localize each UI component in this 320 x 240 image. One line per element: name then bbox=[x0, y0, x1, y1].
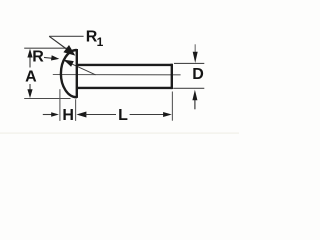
dimension A: bottom extension line bbox=[24, 98, 70, 100]
H left extension line (head tangent) bbox=[59, 89, 61, 121]
dimension L: left shaft bbox=[86, 114, 117, 116]
L right extension line (shank end) bbox=[171, 92, 173, 121]
R leader line bbox=[44, 56, 53, 59]
dimension L: left arrowhead (left pointing) bbox=[76, 112, 86, 118]
H right extension line (head flat) bbox=[75, 99, 77, 121]
rivet head flat face bbox=[76, 49, 78, 98]
svg-text:D: D bbox=[192, 66, 204, 83]
dimension D: top arrowhead (down) bbox=[193, 52, 198, 63]
svg-text:R: R bbox=[32, 49, 44, 66]
svg-text:1: 1 bbox=[97, 35, 104, 49]
crown radius line R (arc to center on axis) bbox=[63, 60, 95, 75]
R1 leader horizontal line bbox=[49, 35, 83, 37]
svg-text:L: L bbox=[118, 107, 128, 124]
dimension D: bottom arrowhead (up) bbox=[192, 90, 197, 101]
dimension A: down arrowhead bbox=[27, 89, 32, 98]
dimension H: left arrowhead (right pointing) bbox=[51, 112, 59, 117]
shank end cap bbox=[171, 64, 173, 89]
dimension H: left arrow shaft bbox=[43, 114, 54, 116]
rivet head (dome outline) bbox=[61, 50, 77, 97]
shank top line bbox=[77, 64, 172, 66]
dimension D: bottom arrow shaft bbox=[194, 100, 196, 109]
centerline (rivet axis) bbox=[53, 74, 181, 76]
svg-text:A: A bbox=[25, 69, 37, 86]
svg-text:H: H bbox=[62, 107, 74, 124]
dimension D: top extension line bbox=[174, 62, 204, 64]
shank bottom line bbox=[77, 87, 172, 89]
R1 arrowhead bbox=[63, 45, 75, 56]
dimension L: right shaft bbox=[130, 114, 164, 116]
R1 leader diagonal line bbox=[49, 36, 66, 48]
dimension A: up arrowhead bbox=[27, 49, 32, 58]
dimension A: top extension line bbox=[24, 47, 70, 49]
dimension A: vertical dimension line lower segment bbox=[29, 84, 31, 91]
dimension D: bottom extension line bbox=[173, 87, 204, 89]
R leader arrowhead bbox=[51, 55, 59, 60]
faint scan artifact line bbox=[0, 133, 239, 134]
dimension L: right arrowhead (right pointing) bbox=[163, 112, 172, 117]
dimension D: top arrow shaft bbox=[194, 44, 196, 53]
dimension A: vertical dimension line upper segment bbox=[29, 57, 31, 68]
